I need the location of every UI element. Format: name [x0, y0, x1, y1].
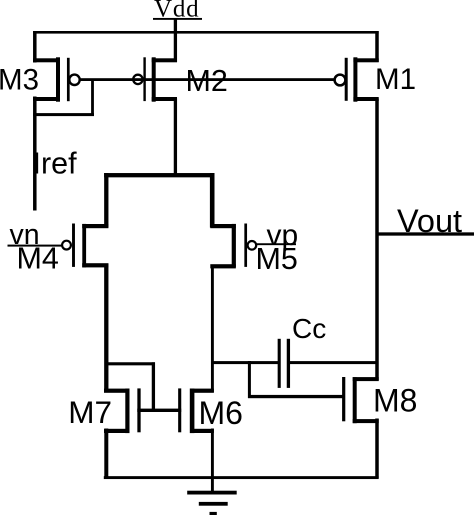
label Iref: [33, 147, 78, 181]
wire M7 drain-gate tie horizontal: [105, 362, 155, 365]
wire M5 drain down to M6 drain (first-stage output): [211, 265, 214, 393]
transistor M3 (PMOS, diode-connected): [33, 57, 80, 101]
wire Cc right plate to output rail: [290, 361, 378, 364]
label M6: [199, 395, 243, 431]
label vn: [10, 219, 40, 251]
svg-text:M2: M2: [186, 64, 228, 98]
wire left rail from top rail to M3 source: [33, 31, 37, 63]
transistor M5 (PMOS input, vp): [210, 224, 256, 269]
label M7: [68, 394, 112, 430]
label M2: [186, 64, 228, 98]
wire M6 source to ground rail: [211, 429, 214, 479]
svg-text:M7: M7: [68, 394, 112, 430]
node vn input lead: [8, 245, 63, 247]
wire M7 source to ground rail: [104, 429, 108, 479]
svg-text:M1: M1: [375, 63, 416, 96]
wire M7-M6 gate tie: [137, 409, 181, 412]
wire bar down to M5 source: [210, 173, 215, 228]
wire gate bus M3-M2-M1: [80, 78, 335, 81]
label Vout: [397, 203, 462, 239]
label M3: [0, 64, 39, 97]
node Vout stub: [377, 232, 474, 235]
wire Vdd stem down to top rail and M2 source: [174, 19, 177, 62]
wire Iref branch (M3 drain down, open end): [33, 97, 37, 211]
svg-text:M4: M4: [17, 242, 59, 276]
wire right rail M1 source to top rail: [375, 31, 379, 62]
wire M7 drain-gate tie vertical: [152, 362, 155, 412]
svg-text:Vout: Vout: [397, 203, 462, 239]
svg-text:M3: M3: [0, 64, 39, 97]
wire M8 gate feed: [248, 395, 344, 398]
label Cc: [292, 313, 326, 344]
wire branch down to M8 gate (vertical): [248, 361, 251, 398]
wire Vdd underline: [153, 18, 202, 20]
svg-text:M6: M6: [199, 395, 243, 431]
svg-text:M5: M5: [256, 242, 298, 276]
wire M3 gate-drain tie: [33, 113, 94, 116]
transistor M7 (NMOS mirror, diode-connected): [104, 388, 141, 433]
wire first-stage output to Cc left plate: [211, 361, 278, 364]
wire M4 drain down to M7 drain: [104, 264, 108, 393]
label M8: [373, 383, 417, 419]
label M1: [375, 63, 416, 96]
label M5: [256, 242, 298, 276]
transistor M4 (PMOS input, vn): [62, 224, 108, 268]
node vp input lead: [256, 243, 296, 245]
capacitor Cc: [278, 339, 290, 388]
transistor M8 (NMOS output driver): [342, 377, 379, 423]
wire right rail / Vout net (M1 drain to Cc and M8 drain): [375, 99, 379, 381]
wire M2 drain to diff-pair source bar: [174, 99, 177, 176]
transistor M6 (NMOS mirror output): [178, 388, 214, 433]
transistor M1 (PMOS output load): [335, 57, 379, 101]
wire top supply rail: [33, 31, 378, 34]
wire M8 source to ground rail: [375, 419, 379, 479]
label M4: [17, 242, 59, 276]
wire diff-pair common source bar: [104, 173, 214, 177]
svg-text:Iref: Iref: [33, 147, 78, 181]
svg-text:Cc: Cc: [292, 313, 326, 344]
ground: [187, 477, 237, 515]
svg-text:M8: M8: [373, 383, 417, 419]
wire bar down to M4 source: [104, 173, 108, 228]
power net Vdd label: [154, 0, 199, 22]
transistor M2 (PMOS tail current source): [133, 57, 177, 101]
label vp: [267, 219, 299, 252]
wire M3 gate drop: [91, 80, 94, 116]
wire bottom ground rail: [104, 476, 379, 479]
